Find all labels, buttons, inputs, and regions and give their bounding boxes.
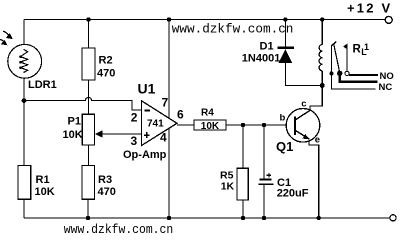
svg-text:7: 7 [162,96,169,110]
wire left column bottom [23,199,25,218]
resistor R4 [194,120,226,130]
light arrow 1 [3,31,9,35]
svg-text:b: b [280,113,286,124]
svg-text:6: 6 [177,108,184,122]
svg-text:NC: NC [379,82,393,93]
svg-text:NO: NO [380,71,394,82]
NC contact line [332,76,376,89]
wire P1 to R3 [87,145,89,166]
terminal bottom right [390,215,396,221]
relay armature fixed line [331,46,333,72]
relay NC contact dot [329,71,333,75]
svg-text:10K: 10K [63,129,83,141]
transistor Q1 [286,109,320,143]
svg-text:Q1: Q1 [276,139,293,154]
svg-text:2: 2 [131,111,138,125]
svg-text:www.dzkfw.com.cn: www.dzkfw.com.cn [64,222,173,237]
svg-text:R1: R1 [36,174,50,186]
potentiometer P1 [82,114,94,145]
svg-text:470: 470 [98,186,116,198]
wire D1 column top [284,20,286,47]
wire R2 to P1 [88,80,90,114]
junction bottom rail / R5 [241,216,245,220]
relay NO open contact circle [345,71,349,75]
junction bottom rail / R3 [86,216,90,220]
svg-text:220uF: 220uF [277,188,309,200]
svg-text:10K: 10K [35,186,55,198]
svg-text:P1: P1 [68,116,81,128]
junction top rail / D1 [283,17,287,21]
junction bottom rail / C1 [262,216,266,220]
wire emitter down [309,139,319,219]
svg-text:4: 4 [160,131,167,145]
junction top rail / relay coil [320,17,324,21]
junction top rail / pin7 [167,17,171,21]
wire R5 top [242,125,244,168]
junction R4 out / R5 [241,123,245,127]
wire opamp out to R4 [177,124,194,126]
wire collector step [310,86,322,111]
svg-text:e: e [315,135,320,146]
minus input symbol [144,110,150,112]
wire top rail +12V [24,19,386,21]
svg-text:10K: 10K [201,121,220,132]
wire wiper to pin3 [102,133,142,135]
svg-text:D1: D1 [260,41,274,53]
resistor R5 [237,168,248,200]
wire C1 bottom [263,185,265,219]
pole thick line [339,74,341,81]
terminal +12V [385,16,392,23]
wire R5 bottom [242,200,244,218]
svg-text:R: R [353,44,362,56]
svg-text:LDR1: LDR1 [28,79,57,91]
relay armature blade [334,45,340,72]
svg-text:R4: R4 [201,108,214,119]
diode D1 [278,47,295,49]
svg-text:+12 V: +12 V [347,1,392,16]
svg-text:3: 3 [131,134,138,148]
svg-text:c: c [301,98,306,109]
LDR1 photoresistor [8,44,42,78]
capacitor C1 [259,179,271,181]
light arrow 2 [0,39,4,41]
svg-text:R2: R2 [99,55,113,67]
svg-text:www.dzkfw.com.cn: www.dzkfw.com.cn [172,21,294,36]
resistor R1 [18,166,31,200]
wire coil top [321,20,323,45]
wire left column top [23,20,25,46]
node A LDR divider [22,98,27,103]
resistor R2 [82,48,95,80]
junction D1 / coil / collector [320,83,325,88]
svg-text:470: 470 [97,68,115,80]
wire pin7 [168,20,170,118]
svg-text:1N4001: 1N4001 [242,52,281,64]
relay armature tick [332,42,337,46]
relay coil RL1 [319,44,322,70]
wire left column mid [23,78,25,166]
wire pin4 [168,128,170,219]
wire D1 to junction [285,63,322,86]
svg-text:Op-Amp: Op-Amp [123,149,167,161]
svg-text:1K: 1K [221,180,235,192]
junction top rail / R2 [86,17,90,21]
svg-text:1: 1 [364,42,369,52]
wire R3 to rail [87,199,89,218]
wire node to pin2 with hop [24,97,142,110]
plus input symbol [144,132,150,138]
resistor R3 [82,166,95,200]
junction bottom rail / emitter [317,216,321,220]
wire R2 top [88,20,90,49]
wire R4 to Q1 base [226,124,294,126]
svg-text:U1: U1 [138,81,156,97]
op-amp U1 [142,101,178,146]
junction bottom rail / pin4 [167,216,171,220]
svg-text:741: 741 [147,119,164,130]
wire C1 top [263,125,265,179]
wire bottom rail [24,217,390,219]
relay actuation arrow [343,43,348,49]
svg-text:R3: R3 [98,174,112,186]
junction R4 out / C1 [262,123,266,127]
NO contact line [349,74,378,76]
relay pole pivot dot [337,71,342,76]
wire coil bottom to junction [321,71,323,85]
